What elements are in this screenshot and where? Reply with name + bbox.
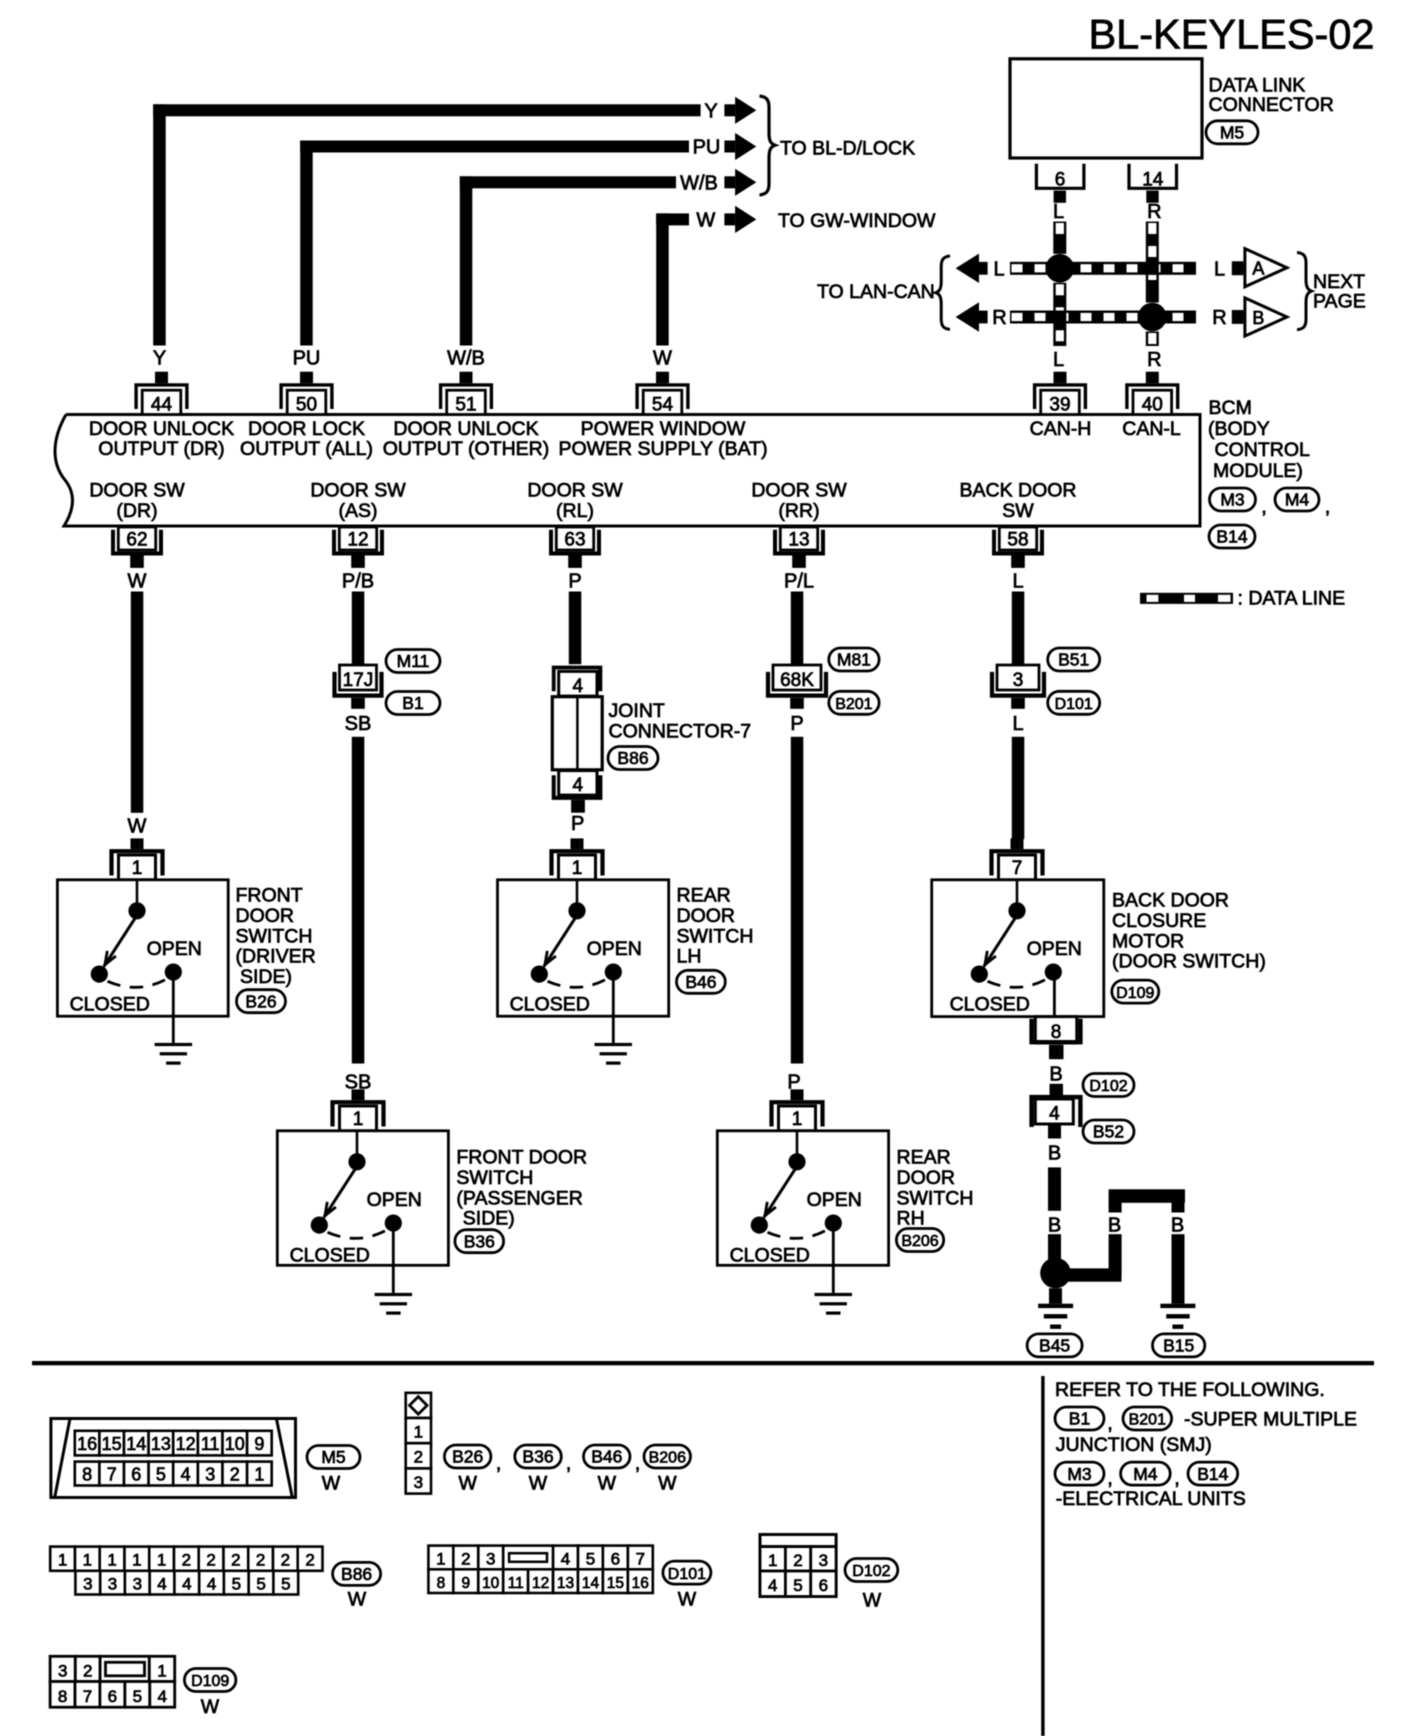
svg-text:PAGE: PAGE — [1313, 290, 1366, 312]
svg-text:,: , — [635, 1453, 641, 1475]
svg-text:14: 14 — [126, 1434, 146, 1454]
svg-text:51: 51 — [455, 395, 476, 416]
svg-text:M11: M11 — [397, 651, 430, 671]
svg-text:5: 5 — [133, 1687, 142, 1706]
svg-text:2: 2 — [182, 1551, 191, 1570]
svg-text:JUNCTION (SMJ): JUNCTION (SMJ) — [1056, 1434, 1212, 1456]
svg-text:REAR: REAR — [677, 885, 731, 907]
svg-text:W: W — [696, 209, 715, 231]
svg-text:B86: B86 — [341, 1564, 372, 1584]
svg-text:MODULE): MODULE) — [1213, 460, 1303, 482]
svg-text:39: 39 — [1049, 395, 1070, 416]
svg-text:12: 12 — [347, 530, 368, 551]
svg-text:M5: M5 — [1220, 123, 1244, 143]
svg-text:D102: D102 — [852, 1563, 890, 1580]
svg-text:CONNECTOR-7: CONNECTOR-7 — [609, 721, 752, 743]
svg-text:DOOR UNLOCK: DOOR UNLOCK — [89, 418, 234, 440]
svg-text:B206: B206 — [901, 1233, 938, 1250]
svg-text:L: L — [1053, 201, 1064, 223]
svg-text:RH: RH — [897, 1208, 925, 1230]
svg-text:58: 58 — [1007, 530, 1028, 551]
svg-text:OPEN: OPEN — [587, 938, 642, 960]
svg-text:DOOR UNLOCK: DOOR UNLOCK — [393, 418, 538, 440]
svg-text:4: 4 — [181, 1464, 191, 1484]
svg-text:W: W — [348, 1589, 367, 1611]
svg-text:12: 12 — [176, 1434, 196, 1454]
svg-text:CAN-H: CAN-H — [1030, 418, 1092, 440]
svg-text:POWER WINDOW: POWER WINDOW — [581, 418, 746, 440]
svg-text:,: , — [496, 1453, 502, 1475]
svg-text:2: 2 — [461, 1550, 470, 1569]
svg-text:W: W — [529, 1473, 548, 1495]
svg-text:15: 15 — [607, 1575, 624, 1592]
svg-text:B206: B206 — [649, 1450, 686, 1467]
svg-text:4: 4 — [207, 1575, 216, 1594]
svg-text:TO LAN-CAN: TO LAN-CAN — [817, 281, 935, 303]
svg-text:M5: M5 — [321, 1447, 345, 1467]
svg-text:4: 4 — [157, 1687, 166, 1706]
svg-text:3: 3 — [205, 1464, 215, 1484]
svg-text:1: 1 — [768, 1551, 777, 1570]
svg-text:,: , — [1174, 1468, 1180, 1490]
svg-text:63: 63 — [564, 530, 585, 551]
svg-text:L: L — [1053, 349, 1064, 371]
svg-text:7: 7 — [1012, 858, 1023, 879]
svg-text:M3: M3 — [1220, 490, 1244, 510]
svg-text:(DR): (DR) — [116, 500, 157, 522]
svg-text:W: W — [458, 1473, 477, 1495]
svg-text:7: 7 — [83, 1687, 92, 1706]
svg-text:B: B — [1252, 308, 1264, 328]
svg-text:BCM: BCM — [1209, 397, 1252, 419]
svg-text:CLOSED: CLOSED — [730, 1244, 810, 1266]
svg-text:14: 14 — [582, 1575, 600, 1592]
svg-text:CONNECTOR: CONNECTOR — [1209, 94, 1334, 116]
svg-text:3: 3 — [133, 1575, 142, 1594]
svg-text:P: P — [568, 570, 581, 592]
svg-text:6: 6 — [1055, 169, 1066, 190]
svg-text:OUTPUT (DR): OUTPUT (DR) — [98, 438, 224, 460]
svg-text:FRONT: FRONT — [236, 885, 303, 907]
svg-text:1: 1 — [132, 858, 143, 879]
svg-text:Y: Y — [153, 348, 166, 370]
svg-text:REFER TO THE FOLLOWING.: REFER TO THE FOLLOWING. — [1055, 1379, 1325, 1401]
svg-text:4: 4 — [1049, 1103, 1060, 1124]
svg-text:6: 6 — [819, 1576, 828, 1595]
svg-text:B1: B1 — [402, 693, 423, 713]
svg-text:DOOR: DOOR — [897, 1167, 956, 1189]
svg-text:1: 1 — [107, 1551, 116, 1570]
svg-text:P: P — [571, 813, 584, 835]
svg-text:B36: B36 — [522, 1447, 553, 1467]
svg-text:5: 5 — [256, 1575, 265, 1594]
svg-text:OPEN: OPEN — [807, 1189, 862, 1211]
svg-text:44: 44 — [151, 395, 173, 416]
svg-text:,: , — [1107, 1413, 1113, 1435]
svg-text:B201: B201 — [1129, 1412, 1166, 1429]
svg-text:L: L — [1012, 570, 1023, 592]
svg-text:DOOR: DOOR — [677, 905, 736, 927]
svg-text:P/L: P/L — [784, 570, 814, 592]
svg-text:CONTROL: CONTROL — [1215, 439, 1310, 461]
svg-text:1: 1 — [58, 1551, 67, 1570]
svg-text:2: 2 — [206, 1551, 215, 1570]
svg-text:OPEN: OPEN — [147, 938, 202, 960]
svg-text:M4: M4 — [1285, 490, 1310, 510]
svg-text:B26: B26 — [452, 1447, 483, 1467]
svg-text:1: 1 — [132, 1551, 141, 1570]
svg-text:B51: B51 — [1058, 650, 1089, 670]
svg-text:,: , — [1107, 1468, 1113, 1490]
svg-text:D102: D102 — [1089, 1078, 1127, 1095]
svg-text:OPEN: OPEN — [367, 1189, 422, 1211]
svg-text:40: 40 — [1142, 395, 1163, 416]
svg-text:6: 6 — [108, 1687, 117, 1706]
svg-text:16: 16 — [632, 1575, 649, 1592]
svg-text:LH: LH — [677, 946, 702, 968]
svg-text:W: W — [678, 1589, 697, 1611]
svg-text:11: 11 — [201, 1434, 220, 1454]
svg-text:1: 1 — [254, 1464, 264, 1484]
svg-text:-ELECTRICAL UNITS: -ELECTRICAL UNITS — [1056, 1488, 1246, 1510]
svg-text:4: 4 — [157, 1575, 166, 1594]
svg-text:-SUPER MULTIPLE: -SUPER MULTIPLE — [1184, 1409, 1357, 1431]
svg-text:DOOR SW: DOOR SW — [751, 480, 847, 502]
svg-text:11: 11 — [508, 1575, 524, 1592]
svg-text:12: 12 — [532, 1575, 549, 1592]
svg-text:8: 8 — [82, 1464, 92, 1484]
svg-text:BACK DOOR: BACK DOOR — [959, 480, 1076, 502]
svg-text:4: 4 — [768, 1576, 777, 1595]
svg-text:2: 2 — [281, 1551, 290, 1570]
svg-text:M3: M3 — [1067, 1464, 1091, 1484]
svg-text:W: W — [201, 1696, 220, 1718]
svg-text:DOOR SW: DOOR SW — [527, 480, 623, 502]
svg-text:5: 5 — [281, 1575, 290, 1594]
svg-text:8: 8 — [1051, 1022, 1062, 1043]
svg-text:SWITCH: SWITCH — [456, 1167, 533, 1189]
svg-text:W/B: W/B — [447, 348, 485, 370]
svg-text:15: 15 — [102, 1434, 122, 1454]
svg-text:5: 5 — [156, 1464, 166, 1484]
svg-text:A: A — [1252, 259, 1264, 279]
svg-text:3: 3 — [1013, 670, 1024, 691]
svg-text:W: W — [128, 570, 147, 592]
svg-text:14: 14 — [1142, 169, 1164, 190]
svg-text:54: 54 — [652, 395, 674, 416]
svg-text:W: W — [598, 1473, 617, 1495]
svg-text:3: 3 — [58, 1661, 67, 1680]
svg-text:2: 2 — [414, 1448, 423, 1467]
svg-text:B15: B15 — [1163, 1336, 1194, 1356]
svg-text:9: 9 — [461, 1575, 470, 1592]
svg-text:B46: B46 — [591, 1447, 622, 1467]
svg-text:B36: B36 — [464, 1231, 495, 1251]
svg-text:SWITCH: SWITCH — [897, 1187, 974, 1209]
svg-text:13: 13 — [151, 1434, 171, 1454]
svg-text:SIDE): SIDE) — [240, 966, 292, 988]
svg-text:BL-KEYLES-02: BL-KEYLES-02 — [1088, 11, 1374, 58]
svg-text:D101: D101 — [1055, 696, 1093, 713]
svg-text:B: B — [1108, 1215, 1121, 1237]
svg-text:B86: B86 — [617, 748, 648, 768]
svg-text:8: 8 — [58, 1687, 67, 1706]
svg-text:OUTPUT (ALL): OUTPUT (ALL) — [240, 438, 373, 460]
svg-text:,: , — [1261, 496, 1267, 518]
svg-text:CLOSED: CLOSED — [70, 993, 150, 1015]
svg-text:JOINT: JOINT — [609, 700, 665, 722]
svg-text:B46: B46 — [685, 972, 716, 992]
svg-text:B52: B52 — [1093, 1122, 1124, 1142]
svg-text:,: , — [566, 1453, 572, 1475]
svg-text:W: W — [128, 815, 147, 837]
svg-text:5: 5 — [793, 1576, 802, 1595]
svg-text:D109: D109 — [1116, 985, 1154, 1002]
svg-text:DOOR: DOOR — [236, 905, 295, 927]
svg-text:5: 5 — [232, 1575, 241, 1594]
svg-text:CAN-L: CAN-L — [1122, 418, 1181, 440]
svg-text:M4: M4 — [1133, 1464, 1158, 1484]
svg-text:L: L — [993, 258, 1004, 280]
svg-text:W: W — [653, 348, 672, 370]
svg-text:W: W — [863, 1590, 882, 1612]
svg-text:B26: B26 — [245, 991, 276, 1011]
svg-text:DOOR SW: DOOR SW — [310, 480, 406, 502]
svg-text:8: 8 — [437, 1575, 446, 1592]
svg-text:(PASSENGER: (PASSENGER — [456, 1187, 582, 1209]
svg-text:L: L — [1214, 258, 1225, 280]
svg-text:FRONT DOOR: FRONT DOOR — [456, 1147, 587, 1169]
svg-text:9: 9 — [254, 1434, 264, 1454]
svg-text:6: 6 — [611, 1550, 620, 1569]
svg-text:R: R — [1147, 201, 1161, 223]
svg-text:W: W — [658, 1473, 677, 1495]
svg-text:MOTOR: MOTOR — [1112, 930, 1184, 952]
svg-text:1: 1 — [414, 1423, 423, 1442]
svg-text:(DOOR SWITCH): (DOOR SWITCH) — [1112, 951, 1266, 973]
svg-text:CLOSURE: CLOSURE — [1112, 910, 1206, 932]
svg-text:68K: 68K — [780, 670, 814, 691]
svg-text:4: 4 — [182, 1575, 191, 1594]
svg-text:R: R — [1212, 307, 1226, 329]
svg-text:SB: SB — [345, 713, 372, 735]
svg-text:DOOR SW: DOOR SW — [89, 480, 185, 502]
svg-text:B1: B1 — [1069, 1409, 1090, 1429]
svg-text:W: W — [322, 1473, 341, 1495]
svg-text:3: 3 — [819, 1551, 828, 1570]
svg-text:4: 4 — [573, 676, 584, 697]
svg-text:1: 1 — [157, 1661, 166, 1680]
svg-text:SIDE): SIDE) — [463, 1208, 515, 1230]
svg-text:(DRIVER: (DRIVER — [236, 946, 316, 968]
svg-text:B201: B201 — [835, 696, 872, 713]
svg-text:PU: PU — [693, 137, 721, 159]
svg-text:13: 13 — [788, 530, 809, 551]
svg-text:17J: 17J — [343, 670, 374, 691]
svg-text:B45: B45 — [1039, 1336, 1070, 1356]
svg-text:2: 2 — [256, 1551, 265, 1570]
svg-text:2: 2 — [83, 1661, 92, 1680]
svg-text:M81: M81 — [837, 650, 871, 670]
svg-text:B: B — [1048, 1215, 1061, 1237]
svg-text:1: 1 — [572, 858, 583, 879]
svg-text:CLOSED: CLOSED — [950, 993, 1030, 1015]
svg-text:7: 7 — [636, 1550, 645, 1569]
svg-text:4: 4 — [561, 1550, 570, 1569]
svg-text:TO GW-WINDOW: TO GW-WINDOW — [778, 210, 936, 232]
svg-text:B14: B14 — [1197, 1464, 1228, 1484]
svg-text:2: 2 — [231, 1551, 240, 1570]
svg-text:REAR: REAR — [897, 1147, 951, 1169]
svg-text:6: 6 — [131, 1464, 141, 1484]
svg-text:P: P — [790, 713, 803, 735]
svg-text:: DATA LINE: : DATA LINE — [1238, 588, 1346, 610]
svg-text:3: 3 — [108, 1575, 117, 1594]
svg-text:Y: Y — [704, 100, 717, 122]
svg-text:2: 2 — [230, 1464, 240, 1484]
svg-text:(RL): (RL) — [556, 500, 594, 522]
svg-text:3: 3 — [486, 1550, 495, 1569]
svg-text:CLOSED: CLOSED — [290, 1244, 370, 1266]
svg-text:62: 62 — [126, 530, 147, 551]
svg-text:BACK DOOR: BACK DOOR — [1112, 890, 1229, 912]
svg-text:1: 1 — [353, 1109, 364, 1130]
svg-text:D109: D109 — [191, 1673, 229, 1690]
svg-text:R: R — [1147, 349, 1161, 371]
svg-text:CLOSED: CLOSED — [510, 993, 590, 1015]
svg-text:P/B: P/B — [342, 570, 374, 592]
svg-text:(RR): (RR) — [778, 500, 819, 522]
svg-text:50: 50 — [296, 395, 317, 416]
svg-text:1: 1 — [83, 1551, 92, 1570]
svg-text:DOOR LOCK: DOOR LOCK — [248, 418, 365, 440]
svg-text:B: B — [1048, 1143, 1061, 1165]
svg-text:SWITCH: SWITCH — [236, 925, 313, 947]
svg-text:10: 10 — [482, 1575, 500, 1592]
svg-text:L: L — [1012, 713, 1023, 735]
svg-text:5: 5 — [586, 1550, 595, 1569]
svg-text:13: 13 — [557, 1575, 574, 1592]
svg-text:R: R — [992, 307, 1006, 329]
svg-text:10: 10 — [225, 1434, 245, 1454]
svg-text:3: 3 — [414, 1473, 423, 1492]
svg-text:OUTPUT (OTHER): OUTPUT (OTHER) — [383, 438, 549, 460]
svg-text:SW: SW — [1002, 500, 1034, 522]
svg-text:TO BL-D/LOCK: TO BL-D/LOCK — [780, 138, 915, 160]
svg-text:B14: B14 — [1216, 527, 1247, 547]
svg-text:PU: PU — [293, 348, 321, 370]
svg-text:4: 4 — [573, 775, 584, 796]
svg-text:,: , — [1325, 496, 1331, 518]
svg-text:7: 7 — [107, 1464, 117, 1484]
svg-text:1: 1 — [157, 1551, 166, 1570]
svg-text:B: B — [1049, 1064, 1062, 1086]
svg-text:16: 16 — [77, 1434, 97, 1454]
svg-text:1: 1 — [792, 1109, 803, 1130]
svg-text:(BODY: (BODY — [1208, 418, 1270, 440]
svg-text:SWITCH: SWITCH — [677, 925, 754, 947]
svg-text:(AS): (AS) — [339, 500, 378, 522]
svg-text:POWER SUPPLY (BAT): POWER SUPPLY (BAT) — [558, 438, 767, 460]
svg-text:W/B: W/B — [680, 172, 718, 194]
svg-text:2: 2 — [793, 1551, 802, 1570]
svg-text:3: 3 — [83, 1575, 92, 1594]
svg-text:2: 2 — [305, 1551, 314, 1570]
svg-text:B: B — [1171, 1215, 1184, 1237]
svg-text:OPEN: OPEN — [1027, 938, 1082, 960]
svg-text:D101: D101 — [668, 1566, 706, 1583]
svg-text:1: 1 — [436, 1550, 445, 1569]
